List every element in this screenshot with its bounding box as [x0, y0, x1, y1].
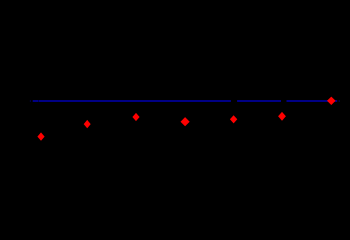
data point 1 — [37, 132, 44, 140]
data point 2 — [84, 120, 91, 128]
data point 3 — [132, 113, 139, 121]
data point 6 — [278, 112, 286, 121]
fitted line segment A — [33, 100, 231, 102]
fitted line segment B — [237, 100, 281, 102]
data point 4 — [181, 117, 190, 126]
fitted line right speck — [339, 100, 340, 102]
data point 7 — [327, 97, 336, 105]
data point 5 — [230, 115, 237, 123]
fitted line segment C — [287, 100, 338, 102]
fitted line left speck — [29, 100, 32, 102]
tick notch on line — [37, 100, 40, 102]
